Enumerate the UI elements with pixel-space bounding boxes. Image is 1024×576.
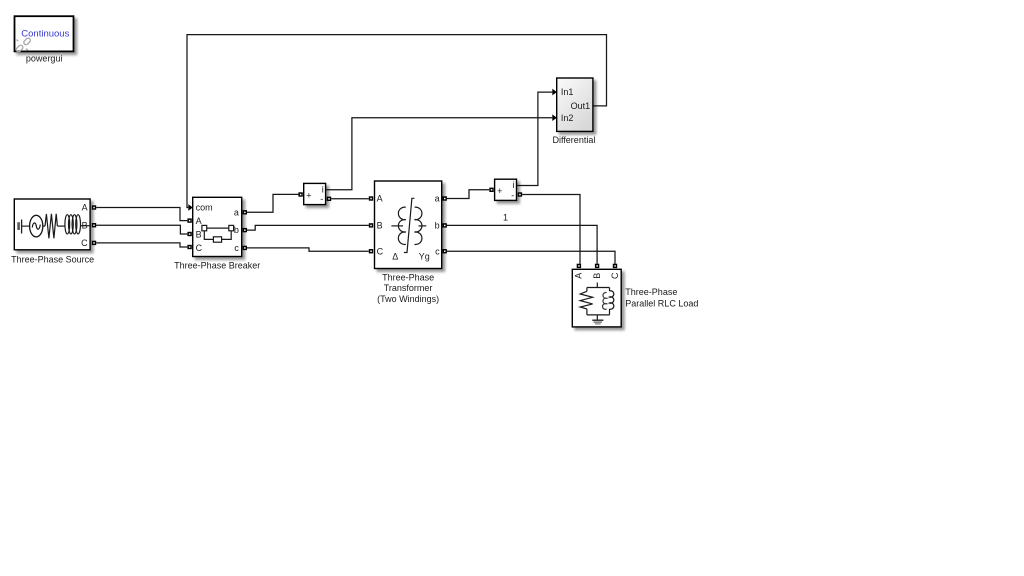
svg-text:B: B	[377, 221, 383, 231]
wire breaker a to current measurement +	[247, 194, 298, 212]
load icon: ground	[592, 320, 603, 324]
svg-text:C: C	[196, 243, 203, 253]
svg-text:A: A	[196, 216, 202, 226]
Three-Phase Source block	[14, 199, 90, 250]
svg-text:Out1: Out1	[571, 101, 591, 111]
svg-text:a: a	[234, 207, 239, 217]
wire breaker c to transformer C	[247, 248, 369, 251]
Three-Phase Transformer block	[375, 181, 442, 269]
svg-text:Differential: Differential	[552, 135, 595, 145]
wire breaker b to transformer B	[247, 225, 369, 230]
source port A pad	[92, 205, 96, 209]
source icon: left terminal	[19, 220, 30, 234]
meas1 left + pad	[298, 192, 302, 196]
source port C pad	[92, 241, 96, 245]
current measurement 1 (transformer side)	[495, 179, 517, 200]
svg-text:a: a	[435, 194, 440, 204]
svg-text:A: A	[82, 203, 88, 213]
arrowhead into com port	[188, 204, 193, 211]
svg-text:Three-Phase Source: Three-Phase Source	[11, 254, 94, 264]
transformer secondary winding	[415, 207, 427, 244]
meas2 left + pad	[489, 188, 493, 192]
svg-text:i: i	[513, 180, 515, 190]
transformer right port b pad	[443, 223, 447, 227]
breaker right port a pad	[243, 210, 247, 214]
source icon: inductor coils	[57, 215, 90, 234]
breaker left port B pad	[187, 232, 191, 236]
svg-text:C: C	[81, 238, 88, 248]
source icon: resistor zigzag	[45, 214, 57, 239]
source icon: sine source circle	[30, 215, 45, 237]
load icon: feed stub and top bar	[587, 283, 610, 321]
wire transformer c to load C	[447, 251, 615, 264]
wire source C to breaker C	[96, 243, 187, 247]
Differential subsystem block	[557, 78, 593, 131]
svg-text:In1: In1	[561, 87, 574, 97]
arrowhead into In1	[552, 89, 557, 96]
svg-text:Three-Phase: Three-Phase	[625, 287, 677, 297]
wire source B to breaker B	[96, 225, 187, 234]
svg-text:Parallel RLC Load: Parallel RLC Load	[625, 299, 698, 309]
wire meas1 - to transformer A	[331, 198, 369, 200]
load top port C pad	[613, 264, 617, 268]
breaker switch icon	[202, 225, 234, 242]
transformer primary winding	[391, 207, 405, 244]
svg-text:com: com	[196, 203, 213, 213]
transformer core line	[404, 198, 415, 252]
wire transformer b to load B	[447, 225, 597, 263]
svg-text:B: B	[196, 229, 202, 239]
svg-text:b: b	[234, 225, 239, 235]
transformer left port A pad	[369, 196, 373, 200]
svg-text:c: c	[234, 243, 239, 253]
svg-text:Three-Phase: Three-Phase	[382, 272, 434, 282]
svg-text:+: +	[306, 190, 311, 200]
svg-text:(Two Windings): (Two Windings)	[377, 294, 439, 304]
load icon: resistor zigzag	[580, 291, 592, 309]
svg-text:-: -	[320, 194, 323, 204]
load top port B pad	[595, 264, 599, 268]
svg-text:B: B	[592, 273, 602, 279]
svg-text:A: A	[574, 273, 584, 279]
svg-text:Δ: Δ	[392, 252, 398, 262]
wire meas1 i output to Differential In2	[326, 118, 553, 190]
wire transformer a to current measurement 1	[447, 190, 489, 199]
powergui broken-link icon	[15, 37, 31, 52]
breaker right port c pad	[243, 246, 247, 250]
transformer right port c pad	[443, 249, 447, 253]
current measurement U1 (breaker side)	[304, 183, 326, 204]
svg-text:In2: In2	[561, 113, 574, 123]
svg-text:C: C	[377, 246, 384, 256]
load icon: inductor coil	[603, 291, 614, 310]
arrowhead into In2	[552, 114, 557, 121]
svg-text:Yg: Yg	[419, 252, 430, 262]
svg-text:C: C	[610, 272, 620, 279]
meas2 bottom-right - pad	[518, 192, 522, 196]
load top port A pad	[577, 264, 581, 268]
transformer right port a pad	[443, 196, 447, 200]
wire meas2 - to load A	[522, 195, 580, 264]
breaker right port b pad	[243, 228, 247, 232]
breaker left port A pad	[187, 218, 191, 222]
wire Out1 feedback loop to breaker com	[187, 35, 607, 208]
svg-text:-: -	[511, 190, 514, 200]
transformer left port C pad	[369, 249, 373, 253]
wire source A to breaker A	[96, 208, 187, 221]
Three-Phase Parallel RLC Load block	[572, 269, 621, 327]
Three-Phase Breaker block	[193, 197, 242, 256]
meas1 bottom-right - pad	[327, 197, 331, 201]
wire meas2 i output to Differential In1	[517, 92, 553, 185]
powergui block	[15, 16, 74, 51]
svg-text:Transformer: Transformer	[384, 283, 433, 293]
svg-text:+: +	[497, 186, 502, 196]
svg-text:c: c	[435, 246, 440, 256]
source port B pad	[92, 223, 96, 227]
svg-text:A: A	[377, 194, 383, 204]
transformer left port B pad	[369, 223, 373, 227]
svg-text:B: B	[82, 220, 88, 230]
breaker left port C pad	[187, 245, 191, 249]
svg-text:Three-Phase Breaker: Three-Phase Breaker	[174, 261, 260, 271]
svg-text:powergui: powergui	[26, 53, 63, 63]
svg-text:1: 1	[503, 213, 508, 223]
svg-text:b: b	[435, 221, 440, 231]
